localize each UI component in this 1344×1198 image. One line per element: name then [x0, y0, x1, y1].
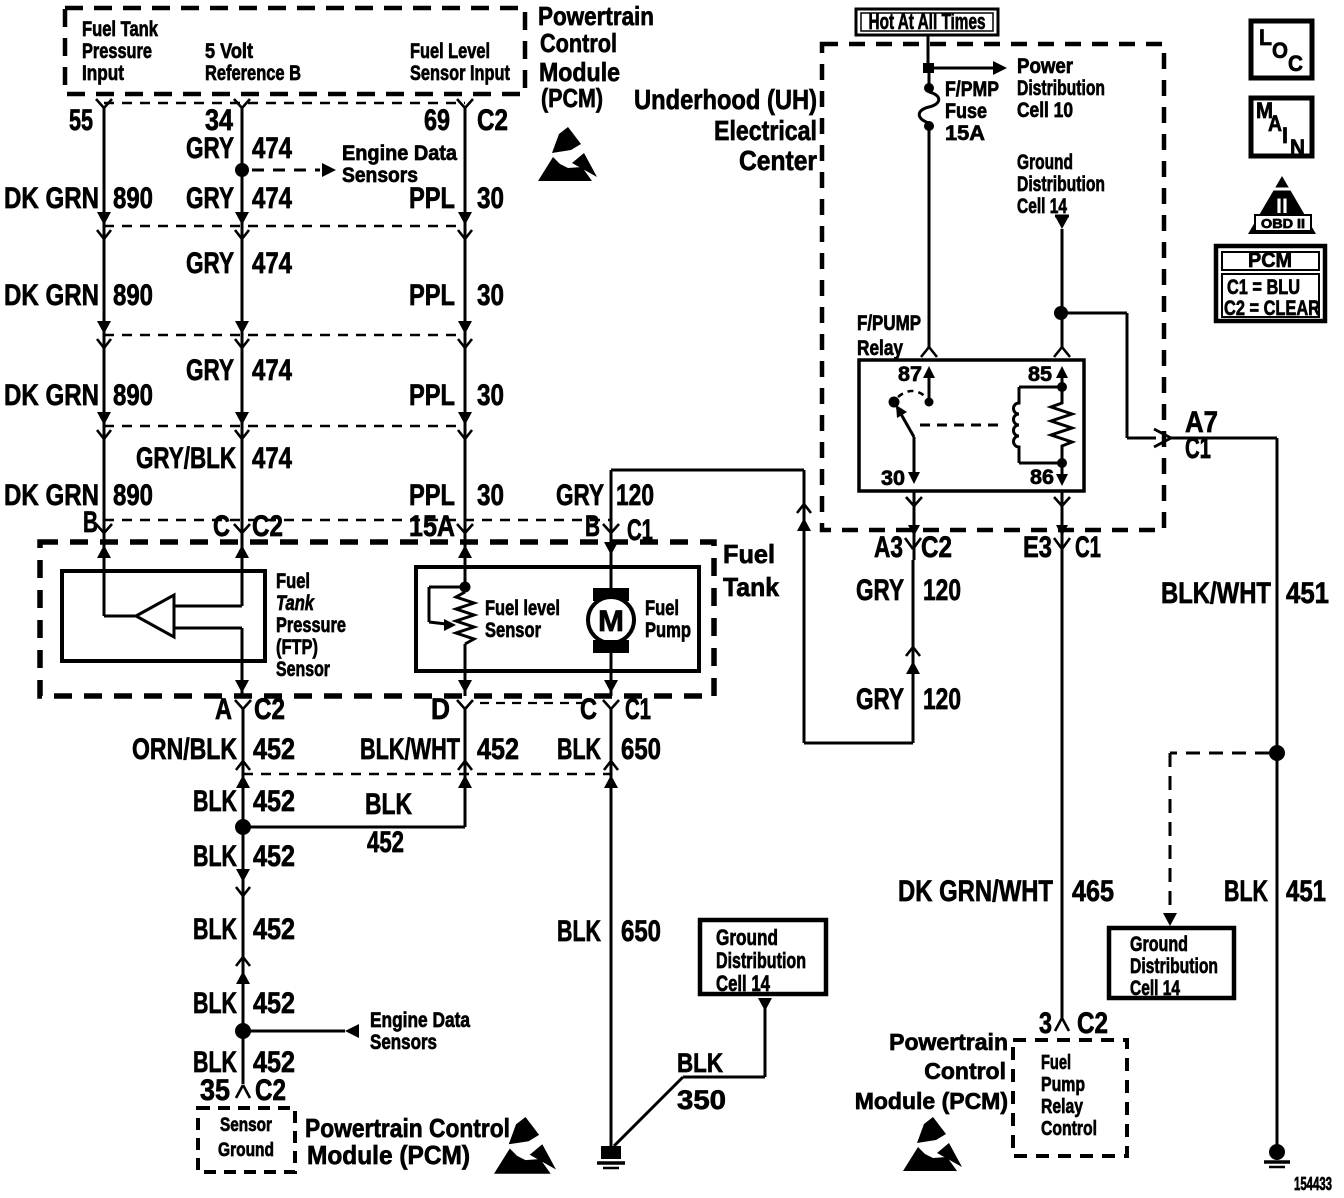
- svg-text:Relay: Relay: [1041, 1096, 1084, 1118]
- svg-text:Input: Input: [82, 62, 124, 85]
- svg-text:474: 474: [252, 354, 292, 387]
- svg-text:85: 85: [1028, 363, 1052, 386]
- svg-text:Distribution: Distribution: [716, 948, 806, 973]
- svg-text:C2: C2: [1077, 1007, 1108, 1040]
- svg-text:35: 35: [200, 1074, 230, 1107]
- svg-text:Control: Control: [540, 28, 617, 58]
- svg-text:PPL: PPL: [409, 182, 455, 215]
- svg-text:Control: Control: [1041, 1118, 1097, 1140]
- svg-text:15A: 15A: [945, 122, 985, 145]
- svg-text:452: 452: [253, 785, 295, 818]
- svg-text:O: O: [1272, 38, 1288, 63]
- svg-text:Powertrain: Powertrain: [538, 1, 654, 31]
- svg-text:Cell 10: Cell 10: [1017, 99, 1073, 122]
- svg-text:OBD II: OBD II: [1261, 216, 1305, 231]
- svg-text:Sensors: Sensors: [342, 164, 418, 187]
- svg-text:452: 452: [253, 913, 295, 946]
- svg-text:650: 650: [621, 915, 661, 948]
- svg-text:452: 452: [253, 840, 295, 873]
- svg-text:86: 86: [1030, 466, 1054, 489]
- svg-text:Sensors: Sensors: [370, 1031, 437, 1054]
- svg-text:C2: C2: [921, 531, 952, 564]
- svg-text:PCM: PCM: [1248, 249, 1292, 272]
- svg-text:A: A: [215, 693, 232, 726]
- svg-text:GRY: GRY: [186, 247, 234, 280]
- svg-text:BLK: BLK: [365, 788, 412, 821]
- svg-text:Control: Control: [924, 1058, 1006, 1084]
- svg-text:GRY: GRY: [856, 574, 904, 607]
- svg-text:DK GRN: DK GRN: [4, 182, 99, 215]
- svg-text:Fuel Level: Fuel Level: [410, 40, 490, 63]
- svg-text:Sensor Input: Sensor Input: [410, 62, 510, 85]
- svg-text:Reference B: Reference B: [205, 62, 301, 85]
- svg-text:GRY: GRY: [186, 354, 234, 387]
- svg-text:120: 120: [923, 574, 961, 607]
- svg-text:C2: C2: [255, 1074, 286, 1107]
- svg-text:B: B: [83, 506, 98, 539]
- svg-text:Distribution: Distribution: [1017, 77, 1105, 100]
- svg-text:Pump: Pump: [645, 619, 691, 642]
- svg-text:A3: A3: [874, 531, 903, 564]
- svg-text:Sensor: Sensor: [485, 619, 541, 642]
- svg-text:890: 890: [113, 279, 153, 312]
- svg-text:30: 30: [881, 467, 905, 490]
- svg-text:Sensor: Sensor: [220, 1115, 272, 1136]
- svg-text:Pressure: Pressure: [82, 40, 152, 63]
- svg-text:465: 465: [1072, 875, 1114, 908]
- svg-text:I: I: [1282, 123, 1288, 148]
- svg-text:650: 650: [621, 733, 661, 766]
- svg-text:C1: C1: [1075, 531, 1101, 564]
- svg-text:Distribution: Distribution: [1130, 955, 1218, 978]
- svg-text:350: 350: [677, 1085, 726, 1115]
- svg-text:C: C: [1288, 51, 1303, 76]
- svg-text:BLK/WHT: BLK/WHT: [360, 733, 460, 766]
- svg-text:BLK: BLK: [193, 913, 237, 946]
- svg-text:5 Volt: 5 Volt: [205, 40, 253, 63]
- svg-text:Pressure: Pressure: [276, 614, 346, 637]
- svg-text:N: N: [1290, 135, 1305, 160]
- svg-text:BLK: BLK: [1224, 875, 1268, 908]
- svg-text:DK GRN: DK GRN: [4, 279, 99, 312]
- svg-text:Center: Center: [739, 145, 817, 176]
- svg-text:GRY: GRY: [856, 683, 904, 716]
- svg-text:B: B: [585, 510, 600, 543]
- svg-text:BLK: BLK: [193, 840, 237, 873]
- svg-text:474: 474: [252, 132, 292, 165]
- svg-text:Relay: Relay: [857, 337, 903, 360]
- svg-text:Fuel: Fuel: [723, 539, 775, 569]
- svg-text:Hot At All Times: Hot At All Times: [869, 9, 986, 34]
- svg-text:ORN/BLK: ORN/BLK: [132, 733, 237, 766]
- svg-text:F/PUMP: F/PUMP: [857, 312, 921, 335]
- svg-text:Fuel: Fuel: [1041, 1052, 1071, 1074]
- svg-text:C2: C2: [252, 510, 283, 543]
- svg-text:Fuel level: Fuel level: [485, 597, 560, 620]
- svg-text:BLK: BLK: [677, 1048, 723, 1078]
- svg-text:890: 890: [113, 379, 153, 412]
- svg-text:Engine Data: Engine Data: [342, 142, 457, 165]
- svg-text:E3: E3: [1023, 531, 1052, 564]
- svg-text:C1: C1: [625, 693, 651, 726]
- svg-text:474: 474: [252, 247, 292, 280]
- svg-text:452: 452: [367, 826, 404, 859]
- svg-text:3: 3: [1039, 1007, 1052, 1040]
- svg-text:154433: 154433: [1294, 1174, 1332, 1194]
- svg-text:452: 452: [477, 733, 519, 766]
- svg-text:451: 451: [1286, 875, 1326, 908]
- svg-text:C2: C2: [477, 104, 508, 137]
- svg-text:Powertrain: Powertrain: [889, 1029, 1008, 1055]
- svg-text:PPL: PPL: [409, 379, 455, 412]
- svg-text:Tank: Tank: [276, 592, 315, 615]
- svg-text:890: 890: [113, 479, 153, 512]
- svg-text:Fuse: Fuse: [945, 100, 987, 123]
- svg-text:Ground: Ground: [218, 1140, 274, 1161]
- svg-text:Fuel Tank: Fuel Tank: [82, 18, 158, 41]
- svg-text:Sensor: Sensor: [276, 658, 330, 681]
- svg-text:BLK: BLK: [557, 915, 601, 948]
- svg-text:DK GRN/WHT: DK GRN/WHT: [898, 875, 1053, 908]
- svg-text:BLK: BLK: [193, 785, 237, 818]
- svg-text:Fuel: Fuel: [645, 597, 679, 620]
- svg-text:A: A: [1268, 111, 1282, 136]
- svg-text:C1 = BLU: C1 = BLU: [1227, 276, 1300, 299]
- svg-text:452: 452: [253, 987, 295, 1020]
- svg-text:87: 87: [898, 363, 922, 386]
- svg-text:BLK: BLK: [193, 987, 237, 1020]
- svg-text:474: 474: [252, 182, 292, 215]
- svg-text:Fuel: Fuel: [276, 570, 310, 593]
- svg-text:PPL: PPL: [409, 279, 455, 312]
- svg-text:GRY: GRY: [556, 479, 604, 512]
- svg-text:30: 30: [477, 182, 504, 215]
- svg-text:452: 452: [253, 733, 295, 766]
- svg-text:BLK: BLK: [557, 733, 601, 766]
- svg-text:Powertrain Control: Powertrain Control: [305, 1113, 510, 1143]
- svg-text:Tank: Tank: [723, 572, 780, 602]
- svg-text:Power: Power: [1017, 55, 1073, 78]
- svg-text:30: 30: [477, 479, 504, 512]
- svg-text:D: D: [431, 693, 450, 726]
- svg-text:C2 = CLEAR: C2 = CLEAR: [1224, 297, 1320, 320]
- svg-text:120: 120: [923, 683, 961, 716]
- svg-text:890: 890: [113, 182, 153, 215]
- svg-text:BLK/WHT: BLK/WHT: [1161, 577, 1271, 610]
- svg-text:Ground: Ground: [1017, 151, 1073, 174]
- svg-text:474: 474: [252, 442, 292, 475]
- svg-text:GRY: GRY: [186, 132, 234, 165]
- svg-text:Cell 14: Cell 14: [716, 971, 771, 996]
- svg-text:PPL: PPL: [409, 479, 455, 512]
- svg-text:DK GRN: DK GRN: [4, 379, 99, 412]
- svg-text:GRY/BLK: GRY/BLK: [136, 442, 236, 475]
- svg-text:(PCM): (PCM): [541, 83, 603, 113]
- svg-text:Engine Data: Engine Data: [370, 1009, 470, 1032]
- svg-text:15A: 15A: [409, 510, 455, 543]
- svg-text:C: C: [213, 510, 230, 543]
- svg-text:(FTP): (FTP): [276, 636, 318, 659]
- svg-text:451: 451: [1286, 577, 1329, 610]
- svg-text:Cell 14: Cell 14: [1130, 977, 1180, 1000]
- svg-text:F/PMP: F/PMP: [945, 78, 999, 101]
- svg-text:Module (PCM): Module (PCM): [307, 1140, 470, 1170]
- svg-text:C: C: [580, 693, 597, 726]
- svg-text:30: 30: [477, 379, 504, 412]
- svg-text:Electrical: Electrical: [714, 115, 817, 146]
- svg-text:C1: C1: [1185, 432, 1211, 465]
- svg-text:Distribution: Distribution: [1017, 173, 1105, 196]
- svg-text:Underhood (UH): Underhood (UH): [634, 84, 817, 115]
- svg-text:Module (PCM): Module (PCM): [855, 1088, 1008, 1114]
- svg-text:69: 69: [424, 104, 450, 137]
- svg-text:Pump: Pump: [1041, 1074, 1085, 1096]
- svg-text:Ground: Ground: [1130, 933, 1188, 956]
- svg-text:30: 30: [477, 279, 504, 312]
- svg-text:55: 55: [69, 104, 93, 137]
- svg-text:L: L: [1259, 25, 1272, 50]
- svg-text:120: 120: [616, 479, 654, 512]
- svg-text:M: M: [598, 605, 624, 638]
- svg-text:GRY: GRY: [186, 182, 234, 215]
- svg-text:Ground: Ground: [716, 925, 778, 950]
- svg-text:C2: C2: [254, 693, 285, 726]
